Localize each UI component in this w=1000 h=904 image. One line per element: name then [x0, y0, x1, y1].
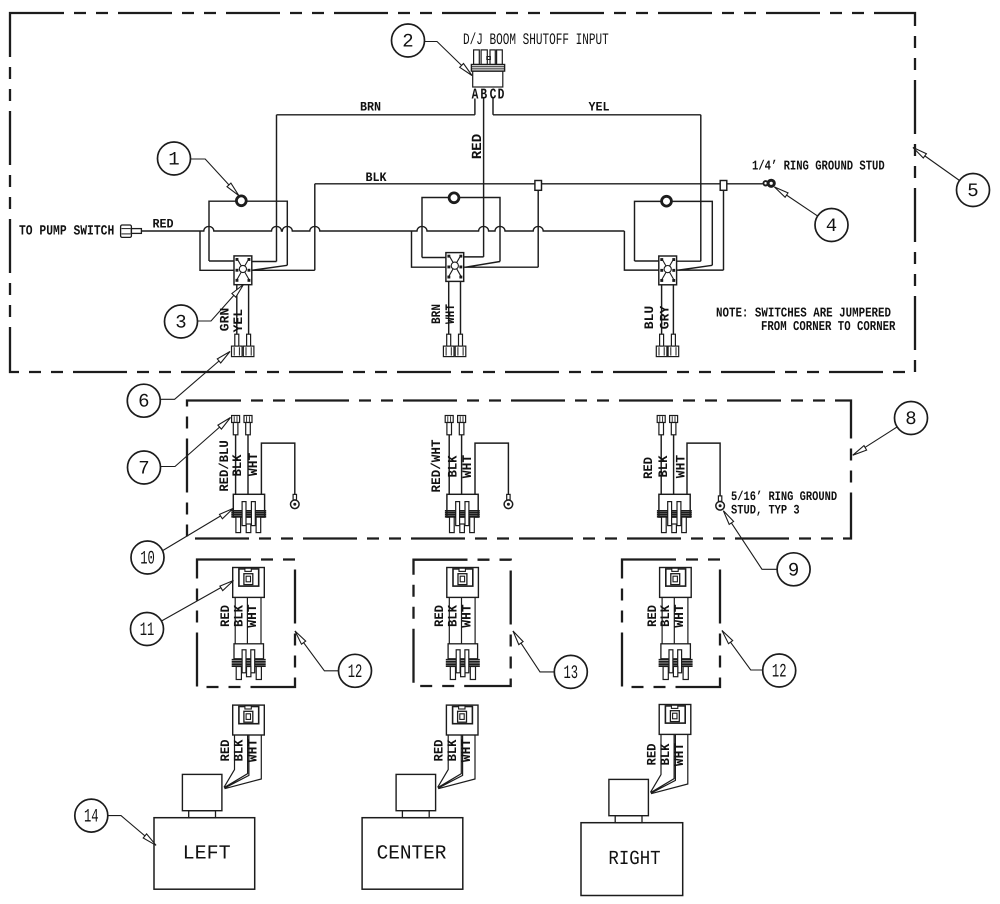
wire P3 RED	[660, 435, 662, 494]
svg-text:1: 1	[168, 149, 179, 171]
wire pin B RED drop	[483, 99, 485, 257]
leader callout 12 right	[722, 631, 763, 671]
lamp CENTER body box	[362, 818, 463, 890]
svg-text:WHT: WHT	[246, 453, 261, 477]
svg-text:11: 11	[140, 619, 155, 641]
terminal S3 BLU	[656, 334, 667, 356]
svg-text:BRN: BRN	[429, 304, 444, 324]
lamp plug LEFT housing	[233, 705, 265, 735]
valve harness dashed border (box 2)	[187, 401, 851, 539]
pin 2	[481, 50, 487, 65]
switch S3 lamp loop	[635, 201, 713, 265]
svg-text:LEFT: LEFT	[183, 843, 231, 866]
svg-text:10: 10	[140, 548, 155, 570]
connector P1 spade B	[244, 416, 252, 435]
wire S3 BLU lead	[661, 285, 663, 334]
wire RED main bus with hops	[141, 226, 624, 231]
wire S1 GRN lead	[236, 285, 238, 335]
wire S2 block to BLK riser	[464, 190, 538, 267]
svg-text:BLK: BLK	[445, 605, 460, 627]
wire P1 RED/BLU	[235, 435, 237, 494]
wire S2 loop diagonal to block mid-right	[466, 262, 501, 268]
lamp CENTER junction box	[396, 774, 436, 810]
lamp plug CENTER wire fan	[438, 735, 475, 789]
callout 10	[131, 541, 164, 574]
callout 6	[127, 384, 160, 417]
svg-text:7: 7	[138, 458, 149, 480]
svg-text:12: 12	[348, 661, 363, 683]
ground stud 5/16 no.2	[504, 494, 513, 508]
pin jumper bar	[487, 57, 491, 60]
svg-text:BLK: BLK	[232, 739, 247, 761]
harness enclosure dashed border (top box)	[10, 13, 915, 372]
connector C1 housing	[233, 568, 265, 598]
svg-text:BLK: BLK	[445, 739, 460, 761]
ground stud 5/16 no.1	[291, 494, 300, 508]
wire S1 loop to block top-left	[209, 260, 234, 262]
switch S1 lamp loop	[209, 201, 287, 265]
lamp RIGHT neck	[615, 816, 642, 823]
svg-text:BLK: BLK	[658, 605, 673, 627]
svg-text:RIGHT: RIGHT	[608, 848, 660, 871]
wire S3 GRY lead	[672, 285, 674, 334]
connector P3 spade B	[670, 416, 678, 435]
wire P2 BLK	[461, 435, 463, 494]
connector C2 footer	[446, 644, 480, 680]
wire P3 BLK	[673, 435, 675, 494]
lamp connector dashed box center	[414, 560, 511, 686]
svg-text:RED/WHT: RED/WHT	[429, 439, 444, 492]
svg-text:9: 9	[788, 559, 799, 581]
connector P1 spade A	[232, 416, 240, 435]
terminal S2 WHT	[455, 334, 466, 356]
svg-text:WHT: WHT	[459, 739, 474, 763]
svg-text:8: 8	[905, 408, 916, 430]
svg-text:BLK: BLK	[656, 455, 671, 477]
wire S3 loop to block top-left	[635, 260, 659, 262]
ground stud 1/4 ring	[763, 180, 774, 186]
callout 14	[75, 799, 108, 832]
wire BLK run	[315, 183, 763, 185]
svg-text:YEL: YEL	[588, 100, 609, 115]
connector C2 housing	[447, 568, 479, 598]
svg-text:RED: RED	[641, 457, 656, 479]
lamp plug RIGHT wire fan	[651, 734, 688, 793]
svg-text:TO PUMP SWITCH: TO PUMP SWITCH	[19, 224, 114, 240]
connector P1 body	[231, 494, 266, 532]
wire S2 WHT lead	[460, 281, 462, 334]
lamp LEFT body box	[154, 818, 255, 890]
wire P1 WHT to ground	[261, 443, 294, 494]
svg-text:GRY: GRY	[657, 306, 672, 330]
terminal S1 YEL	[243, 334, 254, 356]
wire P2 WHT to ground	[475, 443, 508, 494]
svg-text:14: 14	[84, 806, 99, 828]
terminal S1 GRN	[232, 334, 243, 356]
terminal S2 BRN	[443, 334, 454, 356]
callout 2	[392, 24, 425, 57]
node S2 indicator	[449, 193, 459, 203]
terminal S3 GRY	[668, 334, 679, 356]
wire S3 YEL drop to block	[675, 115, 701, 261]
wire P2 RED/WHT	[448, 435, 450, 494]
wire S3 bus end tap	[624, 231, 658, 270]
wire S2 RED drop to block	[462, 256, 484, 258]
connector C3 housing	[660, 568, 692, 598]
wire YEL run	[493, 114, 701, 116]
leader callout 2	[425, 42, 473, 76]
wire S1 YEL lead	[248, 285, 250, 335]
wire pin A stub	[474, 99, 476, 115]
lamp CENTER neck	[402, 811, 429, 818]
svg-text:WHT: WHT	[673, 455, 688, 479]
lamp connector dashed box left	[197, 560, 295, 688]
wire S1 bus tap	[200, 231, 234, 270]
svg-text:WHT: WHT	[459, 604, 474, 628]
leader callout 8	[853, 427, 897, 455]
leader callout 3	[198, 285, 244, 322]
svg-text:C: C	[490, 87, 497, 104]
leader callout 6	[160, 352, 230, 400]
callout 3	[165, 305, 198, 338]
callout 5	[957, 174, 990, 207]
lamp LEFT junction box	[182, 774, 222, 810]
connector C3 footer	[659, 644, 693, 680]
connector P2 body	[445, 494, 480, 532]
leader callout 14	[108, 816, 156, 846]
pin 4	[497, 50, 503, 65]
switch block S2	[446, 253, 464, 282]
switch block S1	[234, 256, 252, 285]
svg-text:6: 6	[138, 391, 149, 413]
wire P1 BLK	[247, 435, 249, 494]
svg-text:YEL: YEL	[231, 309, 246, 333]
callout 4	[815, 209, 848, 242]
connector P3 spade A	[657, 416, 665, 435]
connector C3 wire band	[662, 597, 688, 643]
svg-text:STUD, TYP 3: STUD, TYP 3	[731, 503, 800, 518]
leader callout 1	[191, 159, 239, 196]
svg-text:BRN: BRN	[360, 100, 381, 115]
svg-text:5: 5	[967, 180, 978, 202]
svg-text:BLU: BLU	[642, 306, 657, 329]
pin 1	[474, 50, 480, 65]
svg-text:FROM CORNER TO CORNER: FROM CORNER TO CORNER	[761, 320, 896, 335]
svg-text:WHT: WHT	[672, 604, 687, 628]
callout 1	[158, 142, 191, 175]
callout 11	[131, 613, 164, 646]
svg-text:13: 13	[564, 662, 579, 684]
callout 13	[554, 655, 587, 688]
leader callout 9	[723, 511, 776, 570]
wire S3 loop diagonal to block mid-right	[679, 265, 713, 270]
svg-text:BLK: BLK	[658, 743, 673, 765]
switch S2 lamp loop	[422, 198, 500, 262]
leader callout 4	[775, 187, 818, 216]
node S1 indicator	[236, 196, 246, 206]
splice on BLK at S3	[720, 181, 727, 191]
svg-text:A: A	[472, 87, 479, 104]
ground stud 5/16 no.3	[716, 496, 725, 510]
wire BRN run	[277, 114, 475, 116]
leader callout 11	[162, 581, 234, 622]
svg-text:RED: RED	[153, 217, 174, 232]
connector C1 wire band	[235, 597, 261, 643]
connector C2 wire band	[449, 597, 475, 643]
leader callout 5	[913, 148, 960, 181]
wire S2 BRN lead	[448, 281, 450, 334]
wire P3 WHT to ground	[687, 443, 720, 496]
callout 12 right	[763, 654, 796, 687]
lamp RIGHT junction box	[609, 779, 649, 815]
wire pin C stub	[492, 99, 494, 115]
lamp plug RIGHT housing	[659, 705, 691, 735]
svg-text:1/4’ RING GROUND STUD: 1/4’ RING GROUND STUD	[752, 160, 885, 175]
connector P3 body	[657, 494, 692, 532]
svg-text:WHT: WHT	[443, 304, 458, 324]
lamp plug LEFT wire fan	[224, 735, 261, 789]
svg-text:CENTER: CENTER	[377, 843, 447, 866]
node S3 indicator	[662, 196, 672, 206]
connector C1 footer	[232, 644, 266, 680]
svg-text:BLK: BLK	[230, 454, 245, 476]
wire S1 BRN drop to block	[250, 115, 277, 262]
svg-text:WHT: WHT	[672, 743, 687, 767]
leader callout 12 left	[295, 631, 340, 671]
svg-text:D/J BOOM SHUTOFF INPUT: D/J BOOM SHUTOFF INPUT	[463, 31, 609, 49]
D/J boom shutoff connector J1	[471, 50, 504, 87]
leader callout 10	[162, 509, 233, 552]
svg-text:4: 4	[826, 215, 837, 237]
wire S2 bus tap	[412, 231, 446, 267]
switch block S3	[659, 256, 677, 285]
svg-text:RED: RED	[470, 134, 486, 159]
lamp RIGHT body box	[581, 823, 683, 896]
pin 3	[490, 50, 495, 65]
splice on BLK at S2	[535, 181, 542, 191]
connector P2 spade B	[458, 416, 466, 435]
svg-text:WHT: WHT	[460, 455, 475, 479]
connector P2 spade A	[445, 416, 453, 435]
svg-text:B: B	[480, 87, 487, 104]
svg-text:BLK: BLK	[231, 605, 246, 627]
svg-text:D: D	[498, 87, 505, 104]
lamp connector dashed box right	[622, 560, 720, 688]
svg-text:BLK: BLK	[446, 455, 461, 477]
callout 7	[128, 451, 161, 484]
leader callout 13	[513, 631, 555, 672]
connector body	[473, 71, 503, 87]
lamp plug CENTER housing	[446, 705, 478, 735]
pump switch terminal	[121, 225, 142, 237]
lamp LEFT neck	[189, 811, 216, 818]
wire S1 loop diagonal to block mid-right	[252, 265, 288, 270]
wire S3 block to BLK riser	[677, 190, 724, 270]
wire S1 block to BLK riser	[252, 184, 315, 270]
svg-text:3: 3	[175, 312, 186, 334]
svg-text:WHT: WHT	[246, 739, 261, 763]
svg-text:BLK: BLK	[365, 170, 386, 185]
callout 8	[895, 402, 928, 435]
callout 12 left	[339, 654, 372, 687]
callout 9	[777, 553, 810, 586]
leader callout 7	[161, 418, 231, 467]
wire S2 loop to block top-left	[422, 257, 446, 259]
connector header	[471, 65, 504, 72]
svg-text:WHT: WHT	[245, 604, 260, 628]
svg-text:2: 2	[402, 31, 413, 53]
svg-text:12: 12	[772, 661, 787, 683]
